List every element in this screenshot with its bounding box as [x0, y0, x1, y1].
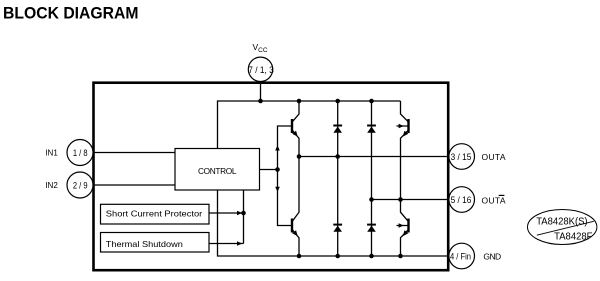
svg-text:OUTA: OUTA	[482, 152, 506, 162]
svg-text:OUTA: OUTA	[482, 195, 506, 205]
svg-text:4 / Fin: 4 / Fin	[450, 251, 471, 261]
svg-text:2 / 9: 2 / 9	[73, 180, 88, 190]
svg-text:IN1: IN1	[45, 148, 58, 158]
svg-text:5 / 16: 5 / 16	[451, 195, 472, 205]
svg-text:TA8428K(S): TA8428K(S)	[536, 217, 587, 228]
svg-text:3 / 15: 3 / 15	[451, 152, 472, 162]
svg-text:IN2: IN2	[45, 180, 58, 190]
svg-text:BLOCK DIAGRAM: BLOCK DIAGRAM	[3, 5, 139, 23]
svg-text:Short Current Protector: Short Current Protector	[106, 208, 203, 218]
svg-text:Thermal Shutdown: Thermal Shutdown	[106, 239, 183, 249]
svg-text:1 / 8: 1 / 8	[73, 148, 88, 158]
svg-text:CONTROL: CONTROL	[198, 166, 237, 176]
svg-text:TA8428F: TA8428F	[554, 231, 592, 242]
svg-text:GND: GND	[483, 251, 501, 261]
svg-text:7 / 1, 3: 7 / 1, 3	[248, 65, 274, 75]
